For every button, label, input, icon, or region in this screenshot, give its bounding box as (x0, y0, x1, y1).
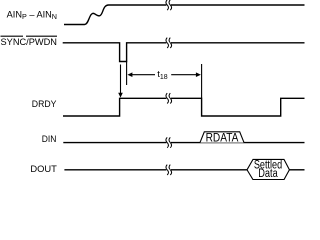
svg-text:DIN: DIN (42, 134, 57, 144)
svg-text:DRDY: DRDY (32, 99, 57, 109)
wire DIN waveform (63, 142, 304, 144)
t18 dimension arrow right (171, 72, 201, 77)
overline PWDN (26, 35, 57, 37)
arrow SYNC falling edge to DRDY rising edge (118, 65, 123, 98)
break mark DIN (166, 137, 172, 147)
wire SYNC/PWDN waveform (63, 43, 305, 62)
break mark SYNC/PWDN (166, 38, 172, 48)
bus DOUT Settled Data hexagon (247, 159, 289, 179)
t18 dimension arrow left (127, 72, 155, 77)
t18 right terminal (DRDY falling edge extension) (201, 64, 203, 98)
bus RDATA trapezoid (200, 132, 244, 143)
break mark AIN (166, 0, 172, 10)
svg-text:DOUT: DOUT (30, 164, 57, 174)
wire AIN waveform (64, 5, 305, 25)
svg-text:SYNC/PWDN: SYNC/PWDN (1, 37, 58, 47)
svg-text:RDATA: RDATA (206, 133, 239, 145)
break mark DOUT (166, 165, 172, 175)
svg-text:AINP – AINN: AINP – AINN (7, 10, 57, 21)
wire DOUT waveform left (64, 169, 247, 171)
svg-text:Data: Data (258, 168, 278, 180)
wire DRDY waveform (63, 98, 305, 116)
t18 left terminal (SYNC rising edge extension) (126, 62, 128, 86)
break mark DRDY (166, 93, 172, 103)
wire DOUT waveform right (289, 169, 304, 171)
overline SYNC (1, 35, 24, 37)
